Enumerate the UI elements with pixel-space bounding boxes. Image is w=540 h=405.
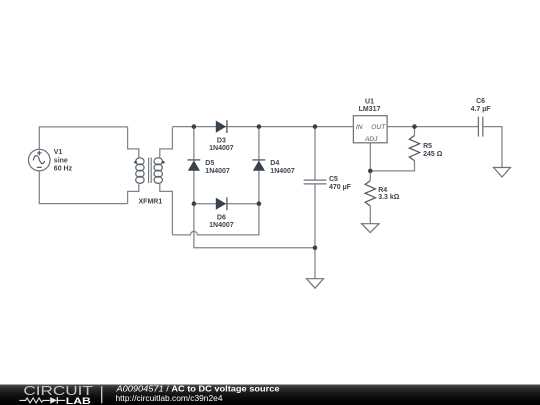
diode D5 (188, 160, 201, 171)
junction node top-right bridge (257, 124, 262, 129)
transformer XFMR1 (128, 127, 173, 235)
label D6 (209, 214, 234, 229)
junction node ADJ (368, 169, 373, 174)
svg-text:60 Hz: 60 Hz (54, 166, 73, 173)
footer bar (0, 385, 540, 405)
phase dot secondary (162, 161, 165, 164)
svg-text:sine: sine (54, 158, 68, 165)
svg-text:D3: D3 (217, 137, 226, 144)
label R5 (423, 143, 443, 158)
diode D6 (216, 197, 227, 210)
label C5 (329, 176, 352, 191)
svg-text:245 Ω: 245 Ω (423, 151, 443, 158)
svg-text:A00904571 / AC to DC voltage s: A00904571 / AC to DC voltage source (115, 384, 280, 393)
svg-text:LM317: LM317 (359, 106, 381, 113)
footer separator (101, 386, 103, 403)
label D4 (270, 160, 295, 175)
svg-text:IN: IN (356, 124, 363, 131)
svg-text:3.3 kΩ: 3.3 kΩ (378, 194, 400, 201)
svg-text:XFMR1: XFMR1 (139, 199, 163, 206)
svg-text:1N4007: 1N4007 (270, 168, 295, 175)
secondary lead bottom (160, 183, 173, 235)
svg-text:1N4007: 1N4007 (209, 145, 234, 152)
label D3 (209, 137, 234, 152)
wire ADJ stem (369, 143, 371, 171)
svg-text:1N4007: 1N4007 (209, 222, 234, 229)
svg-text:R4: R4 (378, 187, 387, 194)
junction node bottom-left bridge (192, 201, 197, 206)
svg-text:C6: C6 (476, 98, 485, 105)
label U1 (359, 99, 381, 114)
wire bridge left vertical (193, 127, 195, 204)
label R4 (378, 187, 400, 201)
svg-text:C5: C5 (329, 176, 338, 183)
svg-text:470 µF: 470 µF (329, 184, 352, 191)
wire bridge right vertical (258, 127, 260, 204)
svg-text:V1: V1 (54, 149, 63, 156)
wire bridge to ground (194, 204, 315, 248)
label D5 (205, 160, 230, 175)
wire top rail (172, 126, 353, 128)
junction node bottom-right bridge (257, 201, 262, 206)
ground under C6 (494, 168, 511, 178)
svg-text:LAB: LAB (66, 396, 91, 405)
svg-text:R5: R5 (423, 143, 432, 150)
ground under C5 (307, 279, 324, 289)
core (149, 158, 152, 184)
label V1 (54, 149, 73, 173)
svg-text:OUT: OUT (371, 124, 386, 131)
junction node top-left bridge (192, 124, 197, 129)
wire secondary bottom with hop (172, 204, 259, 235)
svg-text:D4: D4 (270, 160, 279, 167)
phase dot primary (134, 161, 137, 164)
label C6 (471, 98, 492, 113)
capacitor C5 (304, 127, 327, 248)
voltage source V1 (29, 149, 51, 171)
junction node ground (313, 246, 318, 251)
resistor R4 (365, 171, 375, 224)
op-amp U1 LM317 (353, 116, 387, 144)
svg-text:ADJ: ADJ (364, 136, 378, 143)
resistor R5 (409, 127, 419, 161)
svg-text:D6: D6 (217, 214, 226, 221)
diode D3 (216, 120, 227, 133)
capacitor C6 (478, 117, 502, 168)
svg-text:D5: D5 (205, 160, 214, 167)
svg-text:4.7 µF: 4.7 µF (471, 106, 492, 113)
diode D4 (253, 160, 266, 171)
wire OUT rail (387, 126, 478, 128)
secondary lead top (160, 127, 173, 158)
secondary winding (154, 158, 162, 165)
primary lead top (128, 127, 139, 158)
svg-text:1N4007: 1N4007 (205, 168, 230, 175)
wire V1 top loop (39, 127, 127, 149)
svg-text:U1: U1 (365, 99, 374, 106)
svg-text:http://circuitlab.com/c39n2e4: http://circuitlab.com/c39n2e4 (116, 394, 223, 403)
junction node C5 tap (313, 124, 318, 129)
wire ground stem (314, 248, 316, 279)
primary winding (136, 158, 144, 165)
ground under R4 (362, 224, 379, 233)
wire V1 bottom loop (39, 171, 127, 204)
wire bridge bottom rail (194, 203, 259, 205)
logo doodle resistor+diode (19, 397, 65, 404)
primary lead bottom (128, 183, 139, 204)
wire R5 bottom to junction (370, 161, 414, 171)
junction node R5 tap (412, 124, 417, 129)
